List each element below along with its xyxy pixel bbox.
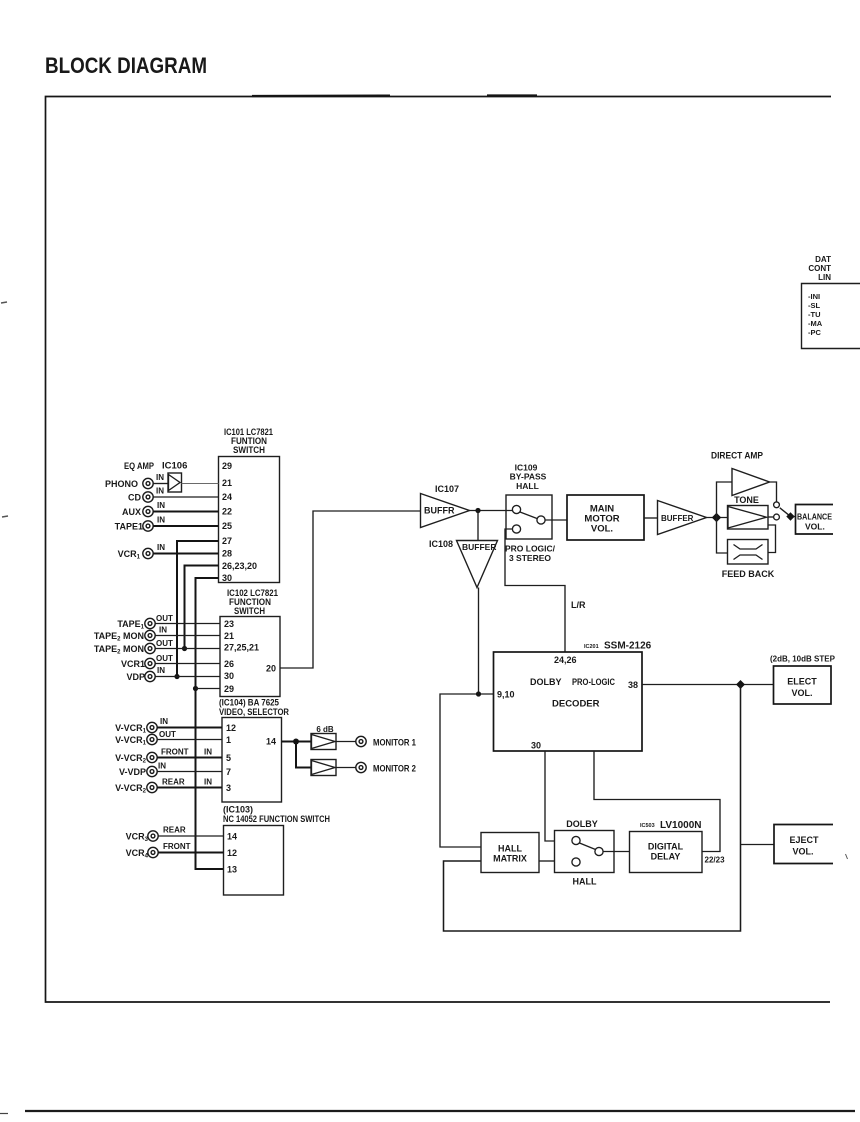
svg-text:BLOCK DIAGRAM: BLOCK DIAGRAM bbox=[45, 53, 207, 78]
svg-text:VOL.: VOL. bbox=[791, 688, 812, 698]
wire junction down to IC108 bbox=[477, 511, 479, 541]
op-amp output buffer bbox=[658, 501, 707, 535]
svg-text:V-VCR2: V-VCR2 bbox=[115, 783, 147, 795]
diagram border frame bbox=[46, 97, 832, 1003]
svg-text:V-VDP: V-VDP bbox=[119, 767, 146, 777]
wire main motor vol to buffer bbox=[644, 517, 658, 519]
svg-text:DIGITAL: DIGITAL bbox=[648, 842, 684, 852]
junction IC108 line into 9,10 wire bbox=[476, 691, 481, 696]
svg-text:SWITCH: SWITCH bbox=[233, 445, 265, 455]
svg-text:IC201: IC201 bbox=[584, 644, 599, 650]
svg-text:IN: IN bbox=[157, 666, 165, 675]
svg-text:-MA: -MA bbox=[808, 319, 823, 328]
jack MONITOR 1 bbox=[356, 736, 366, 746]
svg-text:21: 21 bbox=[224, 631, 234, 641]
jack MONITOR 2 bbox=[356, 762, 366, 772]
svg-text:6 dB: 6 dB bbox=[316, 725, 334, 734]
svg-text:REAR: REAR bbox=[163, 826, 186, 835]
left margin tick 2 bbox=[2, 516, 8, 517]
svg-text:-SL: -SL bbox=[808, 301, 821, 310]
svg-text:MONITOR 2: MONITOR 2 bbox=[373, 764, 416, 775]
svg-text:IC503: IC503 bbox=[640, 823, 655, 829]
svg-text:26,23,20: 26,23,20 bbox=[222, 561, 257, 571]
svg-text:3 STEREO: 3 STEREO bbox=[509, 553, 551, 563]
wire PHONO to IC106 bbox=[153, 483, 168, 485]
wire bus pin30 down to IC102 pin29 and IC103 pin13 bbox=[196, 578, 224, 869]
wire IC109 output to main motor vol bbox=[545, 519, 567, 521]
svg-text:PHONO: PHONO bbox=[105, 479, 138, 489]
svg-text:REAR: REAR bbox=[162, 778, 185, 787]
svg-text:(IC103): (IC103) bbox=[223, 805, 253, 815]
wire TAPE2 MON OUT to pin 27,25,21 bbox=[155, 648, 220, 650]
wire bus pin27 to VDP node bbox=[177, 541, 219, 677]
switch contact direct bbox=[774, 502, 780, 508]
svg-text:(2dB, 10dB STEP: (2dB, 10dB STEP bbox=[770, 655, 836, 664]
wire to balance vol bbox=[793, 516, 796, 518]
jack V-VCR2 REAR IN bbox=[147, 782, 157, 792]
svg-text:13: 13 bbox=[227, 865, 237, 875]
svg-text:(IC104) BA 7625: (IC104) BA 7625 bbox=[219, 698, 279, 708]
jack TAPE1 OUT bbox=[145, 618, 155, 628]
svg-text:EJECT: EJECT bbox=[789, 835, 819, 845]
switch contact tone bbox=[774, 514, 780, 520]
svg-text:VCR3: VCR3 bbox=[126, 832, 149, 844]
jack VCR4 FRONT bbox=[148, 847, 158, 857]
svg-text:L/R: L/R bbox=[571, 600, 586, 610]
svg-text:TAPE2 MON: TAPE2 MON bbox=[94, 644, 144, 656]
wire tone out to switch bbox=[768, 516, 773, 518]
svg-text:DIRECT AMP: DIRECT AMP bbox=[711, 451, 763, 461]
SSM-2126 dolby pro-logic decoder box bbox=[494, 652, 643, 751]
junction monitor split bbox=[293, 739, 299, 745]
svg-text:DOLBY: DOLBY bbox=[530, 677, 562, 687]
data control line list box (cropped at right) bbox=[802, 284, 860, 349]
svg-text:30: 30 bbox=[531, 741, 541, 751]
IC103 function switch box bbox=[224, 826, 284, 896]
IC109 by-pass hall switch box bbox=[506, 495, 552, 539]
junction tone split bbox=[712, 513, 721, 522]
svg-text:14: 14 bbox=[266, 737, 276, 747]
svg-text:VCR1: VCR1 bbox=[121, 659, 145, 669]
switch arm to balance bbox=[780, 508, 789, 515]
jack V-VDP IN bbox=[147, 766, 157, 776]
switch contact output bbox=[595, 847, 603, 855]
svg-text:12: 12 bbox=[227, 848, 237, 858]
wire VCR3 to pin 14 bbox=[158, 835, 223, 837]
svg-text:1: 1 bbox=[226, 735, 231, 745]
svg-text:12: 12 bbox=[226, 723, 236, 733]
svg-text:23: 23 bbox=[224, 619, 234, 629]
IC109 switch contact bottom bbox=[512, 525, 520, 533]
IC109 switch arm bbox=[520, 512, 537, 519]
svg-text:DECODER: DECODER bbox=[552, 699, 600, 710]
bottom-left margin dash bbox=[0, 1113, 8, 1115]
TONE amp box bbox=[728, 506, 769, 530]
wire VCR4 to pin 12 bbox=[158, 852, 223, 854]
wire V-VCR1 OUT to pin 1 bbox=[157, 739, 222, 741]
svg-text:VOL.: VOL. bbox=[805, 522, 825, 532]
feedback loop left wire bbox=[717, 518, 728, 554]
svg-text:FEED BACK: FEED BACK bbox=[722, 569, 775, 579]
wire junction to IC102 pin 29 bbox=[196, 688, 221, 690]
IC104 video selector box bbox=[222, 718, 282, 803]
wire amp to monitor 2 jack bbox=[336, 767, 356, 769]
svg-text:HALL: HALL bbox=[498, 844, 522, 854]
svg-text:3: 3 bbox=[226, 783, 231, 793]
junction elect vol split bbox=[736, 680, 745, 689]
svg-text:SWITCH: SWITCH bbox=[234, 606, 265, 616]
svg-text:IN: IN bbox=[156, 473, 164, 482]
wire AUX to pin 22 bbox=[153, 511, 218, 513]
svg-text:MATRIX: MATRIX bbox=[493, 854, 527, 864]
amplifier monitor 1 bbox=[311, 734, 336, 750]
svg-text:IN: IN bbox=[159, 626, 167, 635]
jack V-VCR2 FRONT IN bbox=[147, 752, 157, 762]
wire VCR1 to pin 28 bbox=[153, 553, 218, 555]
svg-text:7: 7 bbox=[226, 767, 231, 777]
svg-text:-PC: -PC bbox=[808, 328, 822, 337]
svg-text:27,25,21: 27,25,21 bbox=[224, 643, 259, 653]
jack VCR3 REAR bbox=[148, 831, 158, 841]
jack V-VCR1 IN bbox=[147, 722, 157, 732]
wire VCR1 OUT to pin 26 bbox=[155, 663, 220, 665]
svg-text:LV1000N: LV1000N bbox=[660, 820, 702, 831]
svg-text:24: 24 bbox=[222, 492, 232, 502]
svg-text:IN: IN bbox=[204, 778, 212, 787]
svg-text:BUFFR: BUFFR bbox=[424, 506, 455, 516]
svg-text:IN: IN bbox=[156, 487, 164, 496]
svg-text:V-VCR1: V-VCR1 bbox=[115, 735, 147, 747]
wire decoder pin 30 down to dolby switch bbox=[545, 751, 555, 841]
svg-text:29: 29 bbox=[224, 684, 234, 694]
wire V-VDP to pin 7 bbox=[157, 771, 222, 773]
svg-text:EQ AMP: EQ AMP bbox=[124, 461, 154, 471]
IC101 function switch box bbox=[219, 457, 280, 583]
svg-text:30: 30 bbox=[224, 671, 234, 681]
svg-text:-INI: -INI bbox=[808, 292, 820, 301]
svg-text:30: 30 bbox=[222, 573, 232, 583]
svg-text:PRO-LOGIC: PRO-LOGIC bbox=[572, 677, 615, 687]
jack TAPE1 bbox=[143, 521, 153, 531]
svg-text:VCR4: VCR4 bbox=[126, 848, 149, 860]
wire TAPE2 MON IN to pin 21 bbox=[155, 635, 220, 637]
stray mark right margin bbox=[846, 854, 848, 859]
svg-text:VDP: VDP bbox=[126, 672, 145, 682]
jack VCR1 bbox=[143, 548, 153, 558]
jack AUX bbox=[143, 506, 153, 516]
svg-text:MONITOR 1: MONITOR 1 bbox=[373, 738, 417, 749]
junction on TAPE2 MON OUT line bbox=[182, 646, 187, 651]
svg-text:OUT: OUT bbox=[156, 654, 173, 663]
jack VDP IN bbox=[145, 671, 155, 681]
svg-text:TAPE1: TAPE1 bbox=[115, 522, 143, 532]
jack TAPE2 MON OUT bbox=[145, 643, 155, 653]
wire IC108 apex down to decoder line bbox=[478, 588, 480, 695]
scan artifact thick segment on top border 1 bbox=[252, 94, 390, 97]
svg-text:25: 25 bbox=[222, 521, 232, 531]
EJECT VOL box (cropped right) bbox=[774, 825, 833, 864]
amplifier monitor 2 bbox=[311, 760, 336, 776]
wire decoder 9,10 to hall matrix bbox=[440, 694, 494, 847]
svg-text:SSM-2126: SSM-2126 bbox=[604, 641, 652, 652]
svg-text:VIDEO, SELECTOR: VIDEO, SELECTOR bbox=[219, 707, 289, 718]
wire IC104 pin 14 to monitor amps bbox=[282, 741, 312, 743]
wire junction down to monitor 2 amp bbox=[296, 742, 311, 768]
feedback symbol lower bbox=[734, 555, 763, 560]
feedback loop right wire bbox=[768, 525, 776, 553]
wire junction up to direct amp bbox=[717, 482, 733, 518]
jack VCR1 OUT bbox=[145, 658, 155, 668]
svg-text:TAPE1: TAPE1 bbox=[117, 619, 144, 631]
wire direct amp to switch top bbox=[770, 482, 777, 502]
svg-text:PRO LOGIC/: PRO LOGIC/ bbox=[505, 544, 556, 554]
svg-text:NC 14052 FUNCTION SWITCH: NC 14052 FUNCTION SWITCH bbox=[223, 814, 330, 825]
svg-text:V-VCR2: V-VCR2 bbox=[115, 753, 147, 765]
svg-text:ELECT: ELECT bbox=[787, 677, 817, 687]
wire decoder pin 38 to elect vol bbox=[642, 684, 774, 686]
svg-text:IN: IN bbox=[160, 717, 168, 726]
junction balance input bbox=[786, 512, 794, 520]
svg-text:26: 26 bbox=[224, 659, 234, 669]
wire IC107 output to IC109 bbox=[470, 510, 513, 512]
IC102 function switch box bbox=[220, 617, 280, 697]
svg-text:20: 20 bbox=[266, 664, 276, 674]
jack V-VCR1 OUT bbox=[147, 734, 157, 744]
op-amp direct amp bbox=[732, 469, 770, 496]
svg-text:IC107: IC107 bbox=[435, 484, 459, 494]
wire V-VCR2 FRONT to pin 5 bbox=[157, 757, 222, 759]
svg-text:38: 38 bbox=[628, 680, 638, 690]
wire V-VCR1 IN to pin 12 bbox=[157, 727, 222, 729]
dolby/hall switch box bbox=[555, 831, 615, 873]
wire hall matrix to hall contact bbox=[539, 860, 555, 862]
wire IC102 pin 20 up to IC107 input bbox=[280, 511, 420, 668]
wire IC106 to pin 21 (faint) bbox=[182, 483, 219, 485]
svg-text:BUFFER: BUFFER bbox=[462, 542, 496, 552]
svg-text:CD: CD bbox=[128, 493, 141, 503]
svg-text:IN: IN bbox=[158, 762, 166, 771]
switch contact dolby bbox=[572, 836, 580, 844]
switch contact hall bbox=[572, 858, 580, 866]
svg-text:HALL: HALL bbox=[516, 481, 539, 491]
svg-text:21: 21 bbox=[222, 478, 232, 488]
svg-text:28: 28 bbox=[222, 549, 232, 559]
svg-text:VOL.: VOL. bbox=[792, 847, 813, 857]
wire buffer to tone bbox=[707, 517, 728, 519]
svg-text:22/23: 22/23 bbox=[705, 856, 726, 865]
scan artifact thick segment on top border 2 bbox=[487, 94, 537, 96]
feedback symbol upper bbox=[734, 545, 763, 550]
svg-text:BALANCE: BALANCE bbox=[797, 512, 832, 522]
svg-text:FRONT: FRONT bbox=[163, 842, 191, 851]
wire switch output to digital delay bbox=[603, 851, 629, 853]
svg-text:-TU: -TU bbox=[808, 310, 821, 319]
wire VDP IN to pin 30 bbox=[155, 676, 220, 678]
svg-text:OUT: OUT bbox=[156, 639, 173, 648]
svg-text:IC106: IC106 bbox=[162, 461, 187, 472]
svg-text:5: 5 bbox=[226, 753, 231, 763]
svg-text:IN: IN bbox=[157, 501, 165, 510]
svg-text:LIN: LIN bbox=[818, 273, 831, 282]
svg-text:27: 27 bbox=[222, 536, 232, 546]
svg-text:DAT: DAT bbox=[815, 255, 831, 264]
jack CD bbox=[143, 492, 153, 502]
svg-text:OUT: OUT bbox=[156, 614, 173, 623]
wire TAPE1 to pin 25 bbox=[153, 525, 218, 527]
wire amp to monitor 1 jack bbox=[336, 741, 356, 743]
jack PHONO bbox=[143, 478, 153, 488]
op-amp IC108 buffer (inverted) bbox=[457, 541, 498, 588]
wire IC109 bottom contact to decoder 24,26 (L/R) bbox=[505, 529, 565, 652]
junction on VDP line bbox=[174, 674, 179, 679]
svg-text:9,10: 9,10 bbox=[497, 690, 515, 700]
svg-text:IN: IN bbox=[157, 543, 165, 552]
IC109 switch contact top bbox=[512, 505, 520, 513]
wire right rail to eject vol bbox=[741, 844, 775, 846]
svg-text:DELAY: DELAY bbox=[651, 852, 681, 862]
svg-text:TAPE2 MON: TAPE2 MON bbox=[94, 631, 144, 643]
op-amp IC106 EQ amp bbox=[168, 473, 182, 492]
svg-text:IN: IN bbox=[157, 516, 165, 525]
left margin tick 1 bbox=[1, 302, 7, 303]
svg-text:VCR1: VCR1 bbox=[118, 549, 141, 561]
svg-text:TONE: TONE bbox=[734, 495, 759, 505]
DIGITAL DELAY box bbox=[630, 832, 703, 873]
svg-text:HALL: HALL bbox=[573, 877, 597, 887]
IC109 switch contact output bbox=[537, 516, 545, 524]
svg-text:OUT: OUT bbox=[159, 730, 176, 739]
BALANCE VOL box (cropped right) bbox=[796, 505, 834, 535]
MAIN MOTOR VOL box bbox=[567, 495, 644, 540]
FEED BACK box bbox=[728, 540, 769, 565]
svg-text:VOL.: VOL. bbox=[591, 524, 613, 535]
jack TAPE2 MON IN bbox=[145, 630, 155, 640]
svg-text:IC108: IC108 bbox=[429, 539, 453, 549]
svg-text:29: 29 bbox=[222, 461, 232, 471]
op-amp IC107 buffer bbox=[421, 494, 470, 528]
ELECT VOL box bbox=[774, 666, 832, 704]
bottom page rule bbox=[25, 1110, 855, 1112]
wire TAPE1 OUT to pin 23 bbox=[155, 623, 220, 625]
svg-text:BUFFER: BUFFER bbox=[661, 514, 694, 523]
wire bus pin26,23,20 to TAPE2 MON OUT node bbox=[185, 566, 219, 649]
wire junction down right rail bbox=[444, 685, 741, 932]
svg-text:V-VCR1: V-VCR1 bbox=[115, 723, 147, 735]
svg-text:IN: IN bbox=[204, 748, 212, 757]
wire V-VCR2 REAR to pin 3 bbox=[157, 787, 222, 789]
HALL MATRIX box bbox=[481, 833, 539, 873]
switch arm dolby to output bbox=[580, 843, 596, 850]
wire CD to pin 24 bbox=[153, 496, 218, 498]
wire digital delay 22/23 return to decoder bbox=[594, 751, 720, 852]
svg-text:14: 14 bbox=[227, 832, 237, 842]
svg-text:DOLBY: DOLBY bbox=[566, 819, 598, 829]
svg-text:24,26: 24,26 bbox=[554, 655, 577, 665]
svg-text:FRONT: FRONT bbox=[161, 748, 189, 757]
junction on pin29 line bbox=[193, 686, 198, 691]
svg-text:BY-PASS: BY-PASS bbox=[510, 472, 547, 482]
svg-text:22: 22 bbox=[222, 507, 232, 517]
svg-text:AUX: AUX bbox=[122, 507, 141, 517]
svg-text:CONT: CONT bbox=[808, 264, 831, 273]
junction after IC107 bbox=[475, 508, 480, 513]
